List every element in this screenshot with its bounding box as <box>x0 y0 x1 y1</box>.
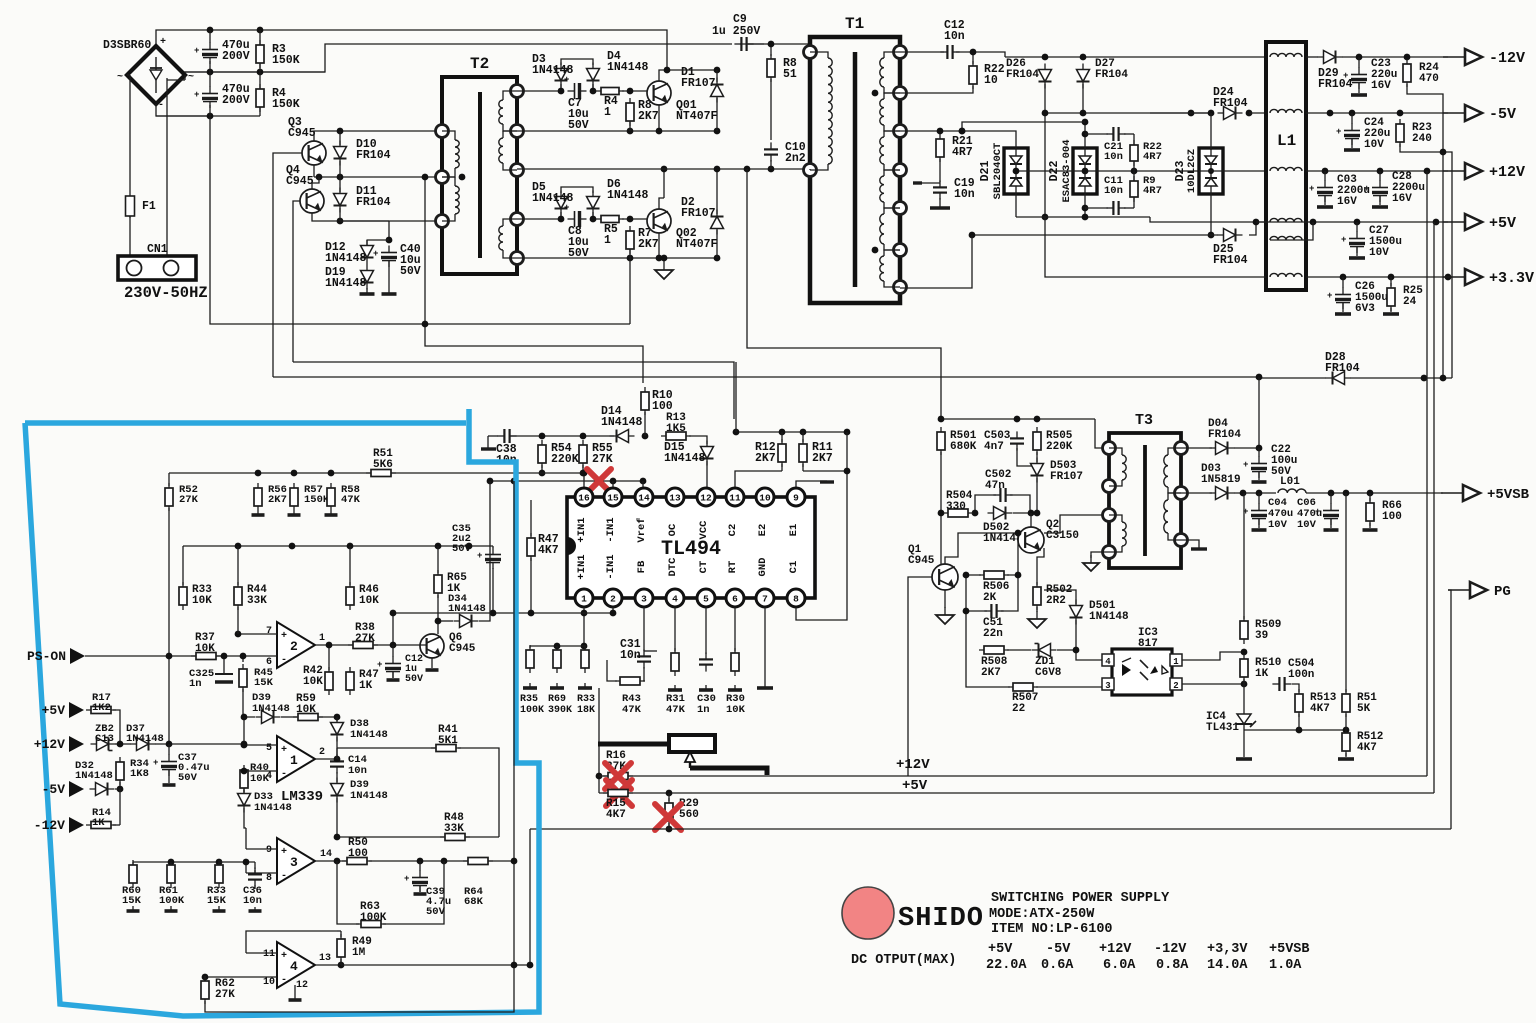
svg-text:FR104: FR104 <box>1006 69 1039 81</box>
wire Q4 base feed <box>293 201 300 362</box>
wire D501 top <box>1044 590 1076 604</box>
svg-text:E1: E1 <box>788 524 800 537</box>
diode D04 FR104 <box>1210 442 1235 455</box>
capacitor C504 100n <box>1272 677 1291 691</box>
svg-text:+3.3V: +3.3V <box>1489 270 1534 287</box>
resistor R10 100 <box>641 387 649 415</box>
svg-text:1N4148: 1N4148 <box>1089 611 1129 623</box>
TL494 pin 9 <box>787 488 805 506</box>
svg-text:50V: 50V <box>400 265 421 278</box>
transistor Q3 C945 <box>302 141 326 165</box>
resistor R51 5K6 <box>366 470 396 477</box>
resistor R46 10K <box>346 582 354 610</box>
resistor R16 27K <box>603 773 633 780</box>
wire R63 ends <box>337 861 359 924</box>
bracket D5-D6 <box>561 187 593 193</box>
T2 tap dot <box>459 174 466 181</box>
svg-text:50V: 50V <box>568 119 589 132</box>
capacitor C502 47n <box>993 488 1012 502</box>
wire R47 ends <box>530 500 532 536</box>
wire pin1 down <box>583 607 585 646</box>
resistor R22 4R7 <box>1130 140 1138 166</box>
wire top joins <box>207 27 214 34</box>
svg-text:+: + <box>281 631 287 642</box>
wire +12V mid rail <box>1016 170 1199 172</box>
transistor Q2 C3150 <box>1018 527 1044 553</box>
svg-text:C1: C1 <box>788 561 800 574</box>
svg-text:+3,3V: +3,3V <box>1207 942 1248 957</box>
wire +12V sense rail <box>599 775 1427 777</box>
L1 coil -5V <box>1270 109 1302 113</box>
svg-text:C3150: C3150 <box>1046 530 1079 542</box>
L1 coil +12V <box>1270 167 1302 171</box>
wire node down to R508 <box>965 611 967 650</box>
wire T3 right top to D04 <box>1181 447 1212 449</box>
svg-text:4R7: 4R7 <box>952 146 973 159</box>
wire R51 top to +5VSB <box>1345 493 1347 692</box>
wire +5VSB rail <box>1234 492 1276 494</box>
svg-text:+5VSB: +5VSB <box>1487 487 1530 503</box>
resistor R41 5K1 <box>431 745 461 752</box>
resistor R31 47K <box>671 648 679 676</box>
svg-text:-: - <box>158 100 164 111</box>
svg-text:10n: 10n <box>243 895 262 907</box>
svg-text:4n7: 4n7 <box>984 441 1004 453</box>
T2 secondary coil 1 <box>503 91 517 100</box>
T2 terminal left 3 <box>436 215 449 228</box>
capacitor C31 10n <box>637 649 651 668</box>
wire R501 bottom down to Q1 <box>940 452 942 565</box>
svg-text:47n: 47n <box>985 480 1005 492</box>
svg-text:4: 4 <box>672 594 678 605</box>
wire D04 to C22 node <box>1234 447 1259 449</box>
T3 coil left lower <box>1109 515 1122 522</box>
svg-text:-IN1: -IN1 <box>605 554 617 579</box>
svg-text:NT407F: NT407F <box>676 238 718 251</box>
wire base line y377 long <box>273 376 1259 378</box>
wire opamp3 inputs <box>246 848 277 850</box>
fuse F1 <box>126 195 135 218</box>
wire C9 junction <box>770 44 772 56</box>
resistor R15 4K7 <box>603 790 633 797</box>
svg-text:4: 4 <box>290 959 298 974</box>
wire mid rail Q4 <box>314 176 444 178</box>
resistor R23 240 <box>1396 119 1404 147</box>
resistor R9 4R7 <box>1130 176 1138 202</box>
svg-text:22: 22 <box>1012 703 1025 715</box>
capacitor C9 1u 250V <box>734 37 753 51</box>
resistor R62 27K <box>201 976 209 1004</box>
diode D03 1N5819 <box>1210 487 1235 500</box>
capacitor C8 10u 50V <box>564 203 587 227</box>
svg-text:FR104: FR104 <box>1325 362 1360 375</box>
T3 terminal right 2 <box>1175 487 1188 500</box>
wire R507 left <box>966 650 1010 687</box>
resistor R505 220K <box>1033 427 1041 455</box>
T2 primary coil upper <box>442 131 455 140</box>
svg-text:15K: 15K <box>207 895 227 907</box>
svg-text:+12V: +12V <box>34 737 65 752</box>
wire D25 to +5V rail <box>1249 222 1256 235</box>
svg-text:24: 24 <box>1403 296 1417 308</box>
wire feed down to rails <box>598 688 600 793</box>
wire R65 bottom to Q6 <box>437 595 439 634</box>
svg-text:-: - <box>281 871 287 882</box>
capacitor C10 2n2 <box>764 142 778 161</box>
wire D39b bottom to row <box>336 798 338 837</box>
wire T1 sec3 rail <box>900 130 1005 132</box>
capacitor C2a 470u 200V <box>194 87 218 109</box>
wire D25 line to T1 return <box>972 234 1218 236</box>
zener ZD1 C6V8 <box>1032 644 1057 657</box>
potentiometer wiper arrow <box>685 752 695 768</box>
diode D4 1N4148 <box>587 63 600 88</box>
svg-text:1: 1 <box>290 753 298 768</box>
T2 terminal right 4 <box>511 213 524 226</box>
svg-text:14: 14 <box>320 849 332 860</box>
wire -5V rail to D24 <box>1150 112 1211 114</box>
svg-text:22n: 22n <box>983 628 1003 640</box>
svg-text:CT: CT <box>698 561 710 574</box>
wire PS-ON line <box>85 655 196 657</box>
svg-text:+5V: +5V <box>902 778 928 794</box>
svg-text:+: + <box>160 37 166 48</box>
resistor R501 680K <box>937 427 945 455</box>
diode D19 1N4148 <box>361 265 374 290</box>
wire D501 bottom to opto pin4 <box>1076 620 1102 660</box>
wire R12 bottom to pin11 <box>781 464 783 471</box>
resistor R21 4R7 <box>936 134 944 162</box>
svg-text:PG: PG <box>1494 584 1511 600</box>
wire D28 ends <box>1259 377 1326 379</box>
wire opamp2 inputs <box>238 633 277 635</box>
svg-text:16V: 16V <box>1337 196 1357 208</box>
svg-text:14: 14 <box>638 493 650 504</box>
svg-text:2: 2 <box>610 594 616 605</box>
wire C36 top <box>219 861 255 863</box>
svg-text:1K8: 1K8 <box>130 768 149 780</box>
wire D2 top to mid rail <box>716 169 718 202</box>
red X over R15 <box>606 780 632 806</box>
svg-text:FR104: FR104 <box>1213 97 1248 110</box>
svg-text:2K7: 2K7 <box>755 452 776 465</box>
svg-text:12: 12 <box>296 980 308 991</box>
svg-text:CN1: CN1 <box>147 243 168 256</box>
svg-text:D3SBR60: D3SBR60 <box>103 39 151 52</box>
T2 secondary coil 3 <box>503 219 517 226</box>
TL494 pin 1 <box>575 589 593 607</box>
svg-text:12: 12 <box>700 493 712 504</box>
resistor R513 4K7 <box>1295 689 1303 717</box>
wire -5V rail out <box>1306 112 1448 114</box>
svg-text:+5V: +5V <box>42 703 66 718</box>
svg-text:+: + <box>281 745 287 756</box>
diode D29 FR104 <box>1318 51 1343 64</box>
wire bottom long rail <box>530 828 1451 830</box>
svg-text:390K: 390K <box>548 705 572 716</box>
svg-text:SWITCHING POWER SUPPLY: SWITCHING POWER SUPPLY <box>991 891 1170 906</box>
wire Q1 collector <box>945 533 1018 564</box>
capacitor C14 10n <box>330 754 344 773</box>
svg-text:16V: 16V <box>1392 193 1412 205</box>
svg-text:27K: 27K <box>215 989 235 1001</box>
svg-text:27K: 27K <box>592 453 613 466</box>
T3 terminal left 3 <box>1103 509 1116 522</box>
wire opamp4 inputs <box>246 952 277 954</box>
wire +3.3V into L1 from left <box>1045 217 1266 277</box>
svg-text:FR107: FR107 <box>681 77 716 90</box>
diode D34 1N4148 <box>454 615 479 628</box>
svg-text:TL431: TL431 <box>1206 722 1239 734</box>
TL494 pin 3 <box>635 589 653 607</box>
wire D12 node <box>340 220 389 222</box>
diode D12 1N4148 <box>361 240 374 265</box>
svg-text:1N4148: 1N4148 <box>325 252 367 265</box>
svg-text:1N4148: 1N4148 <box>607 61 649 74</box>
svg-text:50V: 50V <box>426 906 446 918</box>
svg-text:15K: 15K <box>254 677 274 689</box>
TL494 pin 16 <box>575 488 593 506</box>
svg-text:2: 2 <box>290 639 298 654</box>
svg-text:100K: 100K <box>360 912 387 924</box>
wire R507 right to opto pin3 <box>1036 686 1102 688</box>
wire opamp2 out to R38 <box>315 644 352 646</box>
svg-text:4K7: 4K7 <box>1357 742 1377 754</box>
svg-text:10V: 10V <box>1364 139 1384 151</box>
svg-text:+: + <box>404 874 409 884</box>
wire pin9 ground stub <box>796 481 827 489</box>
wire R512 ground <box>1345 753 1347 757</box>
svg-text:14.0A: 14.0A <box>1207 958 1248 973</box>
svg-text:C945: C945 <box>449 643 476 655</box>
svg-text:5K: 5K <box>1357 703 1371 715</box>
ground under C40 <box>382 288 397 294</box>
wire Q3 emitter to mid rail <box>313 165 315 177</box>
wire pin15/14 top feeds <box>490 480 643 482</box>
svg-text:150K: 150K <box>304 494 330 506</box>
resistor R5 1 <box>596 216 624 223</box>
wire bottom node <box>156 115 260 117</box>
capacitor C40 10u 50V <box>373 246 397 268</box>
svg-text:2K7: 2K7 <box>268 494 287 506</box>
diode D502 1N4148 <box>988 507 1013 520</box>
wire R34 bottom to -5V node <box>119 782 121 789</box>
T2 terminal right 2 <box>511 125 524 138</box>
svg-text:10n: 10n <box>348 765 367 777</box>
resistor R43 47K <box>615 677 645 685</box>
svg-text:15K: 15K <box>122 895 142 907</box>
svg-text:F1: F1 <box>142 200 156 213</box>
wire +5V riser right <box>1433 222 1435 793</box>
svg-text:1: 1 <box>319 633 325 644</box>
wire +12V sense line <box>115 743 131 745</box>
svg-text:1K: 1K <box>1255 668 1269 680</box>
wire C504 right to R513 <box>1292 684 1299 692</box>
svg-text:50V: 50V <box>452 543 472 555</box>
T3 terminal left 1 <box>1103 442 1116 455</box>
TL494 pin 7 <box>756 589 774 607</box>
wire D22 bottom <box>1084 194 1086 217</box>
resistor R54 220K <box>538 440 546 468</box>
capacitor C12 10n <box>940 45 959 59</box>
svg-text:47K: 47K <box>622 704 642 716</box>
resistor R61 100K <box>167 860 175 888</box>
wire C51 loop <box>966 575 987 611</box>
wire Q01 emitter to rail <box>658 105 660 131</box>
wire ZD1 to D501 node <box>1057 649 1076 651</box>
capacitor C24 220u 10V <box>1336 124 1360 146</box>
wire riser to bottom rail <box>529 829 531 965</box>
resistor R65 1K <box>434 570 442 598</box>
wire +12V rail out <box>1306 170 1448 172</box>
input arrow -12V <box>34 817 84 833</box>
svg-text:-5V: -5V <box>1046 942 1071 957</box>
svg-text:+: + <box>1341 235 1346 245</box>
wire lower rectifier rail <box>1016 216 1150 218</box>
resistor R13 1K5 <box>661 432 691 440</box>
diode D33 1N4148 <box>238 788 251 813</box>
diode D25 FR104 <box>1218 229 1243 242</box>
svg-text:2K7: 2K7 <box>638 238 659 251</box>
wire TL431 ref line <box>1244 729 1346 731</box>
capacitor C503 4n7 <box>1010 431 1024 450</box>
svg-text:5K6: 5K6 <box>373 459 393 471</box>
wire R509 top to +5VSB <box>1243 493 1245 619</box>
wire R13 to D15 <box>689 436 707 444</box>
svg-text:4K7: 4K7 <box>538 544 559 557</box>
svg-text:10: 10 <box>759 493 771 504</box>
svg-text:D21: D21 <box>979 161 992 182</box>
svg-text:11: 11 <box>263 949 275 960</box>
wire Q3 base feed <box>273 153 302 377</box>
svg-text:9: 9 <box>793 493 799 504</box>
wire T3 left bottom ground <box>1091 552 1109 558</box>
wire opamp3 output <box>315 860 346 862</box>
svg-text:1K: 1K <box>359 680 373 692</box>
TL494 pin 4 <box>666 589 684 607</box>
wire T3 right mid to D03 <box>1181 492 1212 494</box>
wire opamp4 output <box>315 964 341 966</box>
svg-text:100K: 100K <box>520 705 544 716</box>
svg-text:L1: L1 <box>1277 132 1296 150</box>
wire R14 right to column <box>113 824 120 826</box>
svg-text:27K: 27K <box>179 494 199 506</box>
resistor R66 100 <box>1366 498 1374 526</box>
resistor R33 10K <box>179 582 187 610</box>
diode D5 1N4148 <box>555 191 568 216</box>
resistor R509 39 <box>1240 616 1248 644</box>
wire R52 bottom down <box>168 508 170 744</box>
svg-text:MODE:ATX-250W: MODE:ATX-250W <box>989 907 1095 922</box>
T3 terminal right 1 <box>1175 442 1188 455</box>
svg-text:FR107: FR107 <box>1050 471 1083 483</box>
svg-text:18K: 18K <box>577 705 595 716</box>
svg-text:10n: 10n <box>1104 151 1123 163</box>
svg-text:470: 470 <box>1419 73 1439 85</box>
wire R41 right <box>458 748 499 837</box>
wire opamp3 minus to divider row <box>245 862 247 873</box>
wire pin2 down-left <box>612 607 614 613</box>
resistor R25 24 <box>1387 283 1395 311</box>
svg-text:+IN1: +IN1 <box>576 554 588 579</box>
resistor R42 10K <box>325 667 333 695</box>
wire +5V rail out <box>1256 221 1448 223</box>
wire Q4 emitter rail <box>312 213 444 221</box>
wire R11 bottom to pin8 riser <box>802 464 804 471</box>
svg-text:4K7: 4K7 <box>1310 703 1330 715</box>
svg-text:NT407F: NT407F <box>676 110 718 123</box>
resistor R59 10K <box>293 714 323 721</box>
output arrow -5V <box>1443 105 1516 123</box>
svg-text:+: + <box>281 951 287 962</box>
svg-text:FB: FB <box>636 560 648 573</box>
svg-text:-5V: -5V <box>1489 106 1516 123</box>
capacitor C37 0.47u 50V <box>153 755 177 777</box>
svg-text:1N5819: 1N5819 <box>1201 474 1241 486</box>
capacitor C21 10n <box>1106 127 1125 141</box>
svg-text:10V: 10V <box>1297 519 1317 531</box>
capacitor C11 10n <box>1106 201 1125 215</box>
output arrow -12V <box>1443 49 1525 67</box>
svg-text:ITEM NO:LP-6100: ITEM NO:LP-6100 <box>991 922 1113 937</box>
wire -5V jog into L1 <box>1249 112 1266 114</box>
wire opamp2 minus drop <box>242 656 244 662</box>
wire R505 bottom to D503 <box>1036 452 1038 462</box>
svg-text:DC OTPUT(MAX): DC OTPUT(MAX) <box>851 953 956 968</box>
input arrow +12V <box>34 736 84 752</box>
thick wire to potentiometer <box>598 742 672 747</box>
wire T3 right bottom ground <box>1181 540 1199 548</box>
svg-text:16: 16 <box>578 493 590 504</box>
svg-text:2: 2 <box>1173 681 1178 691</box>
wire D26/D27 to -5V rail <box>1045 112 1211 114</box>
rectifier D22 ESAC83-004 <box>1073 148 1097 194</box>
wire D21 top <box>1005 131 1016 148</box>
svg-text:51: 51 <box>783 68 797 81</box>
svg-text:200V: 200V <box>222 94 250 107</box>
output arrow +12V <box>1443 163 1525 181</box>
wire +5V sense rail <box>599 792 1434 794</box>
diode D26 FR104 <box>1039 64 1052 89</box>
transformer T3 <box>1109 433 1181 568</box>
svg-text:230V-50HZ: 230V-50HZ <box>124 284 208 302</box>
wire opto pin2 to C504 <box>1182 683 1244 685</box>
svg-text:6: 6 <box>732 594 738 605</box>
wire Q4 collector <box>312 177 319 189</box>
svg-text:200V: 200V <box>222 50 250 63</box>
resistor R4 150K <box>256 84 264 112</box>
svg-text:6V3: 6V3 <box>1355 303 1375 315</box>
svg-text:OC: OC <box>667 523 679 536</box>
svg-text:-: - <box>281 769 287 780</box>
resistor R52 27K <box>165 483 173 511</box>
diode D1 FR107 <box>711 78 724 103</box>
wire minus rail down-right <box>210 116 630 324</box>
capacitor C35 2u2 50V <box>477 548 501 570</box>
wire F1 to CN1 <box>129 216 131 255</box>
svg-text:-: - <box>281 655 287 666</box>
svg-text:DTC: DTC <box>667 557 679 577</box>
resistor R507 22 <box>1008 683 1038 691</box>
svg-text:4R7: 4R7 <box>1143 185 1162 197</box>
resistor R47 4K7 <box>527 533 535 561</box>
wire resistor network top <box>530 645 585 647</box>
svg-text:1n: 1n <box>697 704 710 716</box>
svg-text:2R2: 2R2 <box>1046 595 1066 607</box>
wire pin8 to riser <box>796 471 847 620</box>
svg-text:4K7: 4K7 <box>606 809 626 821</box>
wire D39-R59 link <box>281 716 297 718</box>
